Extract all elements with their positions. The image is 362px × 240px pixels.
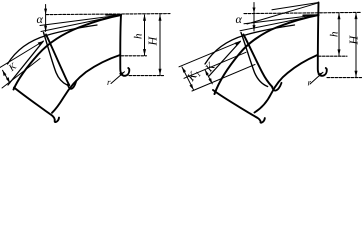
K dim arrow down [6,77,10,83]
label H right [350,35,358,44]
K1 arrow up right [182,67,186,73]
alpha arrow bottom right [253,25,256,31]
blade 3 edge right [213,90,265,123]
label K [9,62,17,71]
chamfer line lower right [240,15,319,31]
blade 2 hook [68,81,77,89]
blade 2 left edge right [241,33,268,87]
K arrow up right [205,70,209,76]
blade 2 right edge [46,35,69,86]
chamfer line upper right [244,15,319,24]
K extension line upper with arrow [0,41,44,68]
chamfer line lower [41,15,121,32]
r leader [111,72,125,84]
blade 1 outer arc [14,15,122,90]
blade 2 inner arc [52,55,120,113]
blade 1 right edge and hook [120,15,129,76]
alpha arrow top [44,9,47,15]
alpha dimension line right [253,3,255,32]
steep construction line right [209,42,240,77]
H arrow bottom [159,69,162,76]
r arrow right [318,72,324,76]
blade 2 inner arc right [255,55,318,113]
h dimension line right [338,13,340,56]
h bottom dashed extension [121,55,147,57]
h arrow bottom [143,49,146,56]
h dimension line [144,15,146,56]
blade 2 left edge [44,33,68,86]
H bottom dashed extension right [327,77,362,79]
upper chamfer line 2 right [272,3,319,10]
upper chamfer line 1 right [247,3,319,24]
K extension line B right [184,52,246,78]
blade 2 outer surface arc [8,25,98,64]
r leader right [310,72,323,84]
alpha arrow top right [253,8,256,14]
tip approach solid segment right [303,14,319,16]
blade 1 outer arc right [215,15,319,94]
blade 3 edge [14,88,59,123]
label K1 [187,71,201,82]
H arrow top [159,14,162,21]
K extension line lower [2,59,40,89]
K dimension line right [205,70,212,84]
H dimension line right [355,13,357,78]
blade 2 right edge right [244,35,273,87]
h bottom dashed extension right [319,55,348,57]
label r right [308,81,311,85]
K extension line C right [192,65,255,92]
label alpha right [236,17,242,23]
H dimension line [159,15,161,76]
label alpha [37,17,43,23]
alpha arrow bottom [44,26,47,32]
h arrow bottom right [338,49,341,56]
h arrow top [143,14,146,21]
arrow on extension A right [235,41,241,45]
chamfer line upper [40,15,121,26]
K1 dimension line right [182,67,194,90]
alpha dimension line [45,5,47,32]
blade 2 hook right [272,83,282,91]
steep construction line [8,41,43,85]
blade 2 outer surface arc right [205,25,295,64]
K dim arrow up [3,70,7,76]
H bottom dashed extension [129,75,164,77]
top extension dashed line right [244,12,361,13]
label r [107,81,110,85]
top extension dashed line [46,14,170,15]
K1 arrow down right [189,84,193,90]
label h right [330,32,338,37]
K extension line A right [179,41,241,67]
label H [149,36,157,45]
r arrow [119,72,125,76]
K dimension line [3,70,10,83]
blade 1 right edge and hook right [318,3,327,76]
arrow on upper extension [38,41,44,45]
K arrow down right [208,78,212,84]
label h [134,34,142,39]
tip approach solid segment [106,14,121,16]
H arrow top right [355,13,358,20]
h arrow top right [338,13,341,20]
label K right [205,61,215,72]
H arrow bottom right [355,71,358,78]
